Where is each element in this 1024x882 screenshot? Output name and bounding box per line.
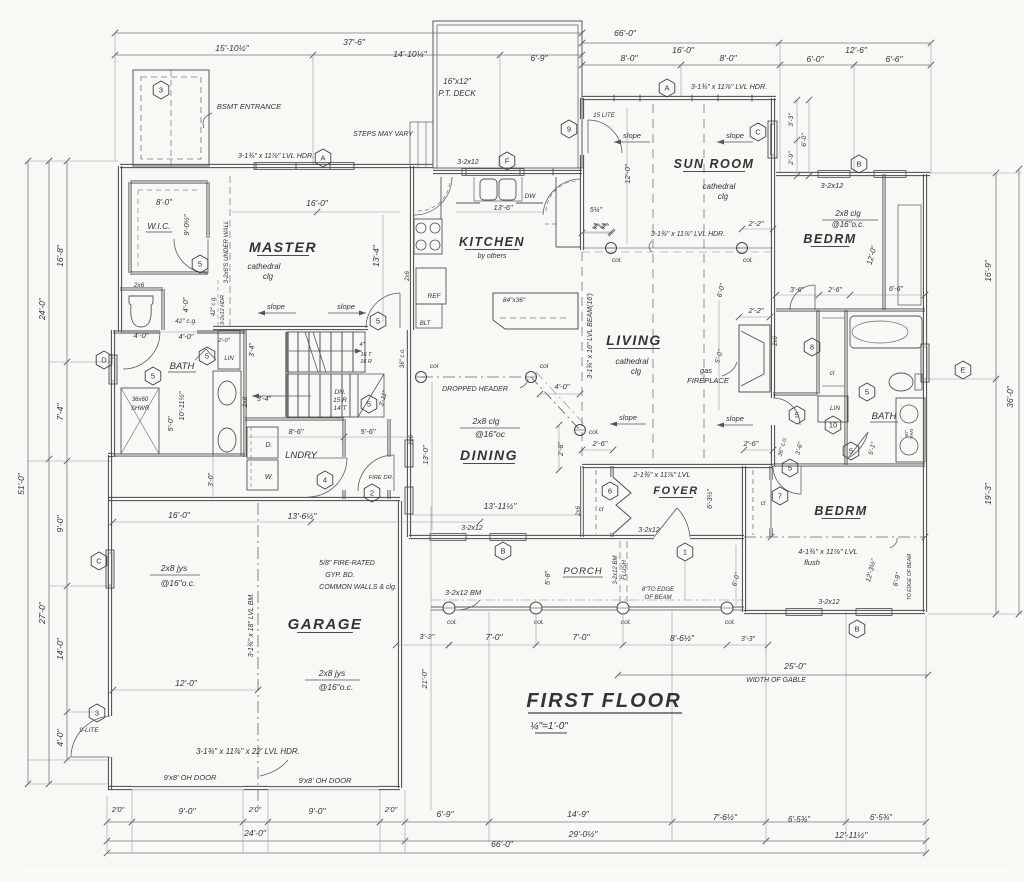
svg-text:2x6: 2x6 xyxy=(133,282,145,289)
svg-text:cathedral: cathedral xyxy=(248,262,281,271)
garage dim 12'-0 xyxy=(113,689,258,691)
foyer header wall xyxy=(582,464,773,467)
svg-text:COMMON WALLS & clg.: COMMON WALLS & clg. xyxy=(319,584,397,591)
svg-text:col: col xyxy=(430,363,439,370)
svg-text:9'x8' OH DOOR: 9'x8' OH DOOR xyxy=(164,773,217,782)
master south wall xyxy=(213,326,368,329)
svg-text:2x8 clg: 2x8 clg xyxy=(472,416,500,426)
garage door leafs xyxy=(132,786,244,788)
svg-text:2'-2": 2'-2" xyxy=(748,219,764,228)
svg-text:2'0": 2'0" xyxy=(111,805,125,814)
kitchen dim 13'-6 xyxy=(456,211,543,213)
svg-text:8'-6": 8'-6" xyxy=(289,427,304,436)
svg-text:LNDRY: LNDRY xyxy=(285,450,318,461)
stove xyxy=(414,219,442,254)
svg-text:6'-5¾": 6'-5¾" xyxy=(870,813,893,822)
svg-text:slope: slope xyxy=(726,414,744,423)
svg-text:6'-6": 6'-6" xyxy=(886,54,904,64)
bedroom3 south wall xyxy=(776,309,925,311)
porch dims xyxy=(535,612,537,645)
svg-text:MASTER: MASTER xyxy=(249,239,317,255)
hex marker 9 sunroom door xyxy=(561,120,577,138)
svg-text:36" c.o.: 36" c.o. xyxy=(400,348,406,368)
svg-text:B: B xyxy=(854,625,859,634)
svg-text:col.: col. xyxy=(447,619,457,626)
wall dining south exterior xyxy=(409,535,582,538)
svg-text:16"x12": 16"x12" xyxy=(443,77,472,86)
sunroom roof beams dashed xyxy=(652,104,654,462)
hex marker 5 bedroom2 door xyxy=(782,459,798,477)
svg-text:TO EDGE OF BEAM: TO EDGE OF BEAM xyxy=(907,553,913,600)
svg-text:36'-0": 36'-0" xyxy=(1005,385,1015,408)
svg-text:16 R: 16 R xyxy=(360,359,372,365)
svg-text:3-2x6'S UNDER WALL: 3-2x6'S UNDER WALL xyxy=(223,220,230,284)
svg-text:5/8" FIRE-RATED: 5/8" FIRE-RATED xyxy=(319,560,375,567)
master se door arc xyxy=(366,293,400,328)
svg-text:21'-0": 21'-0" xyxy=(420,669,429,689)
svg-text:7: 7 xyxy=(778,492,782,501)
svg-text:66'-0": 66'-0" xyxy=(491,839,514,849)
svg-text:66'-0": 66'-0" xyxy=(614,28,637,38)
svg-text:col.: col. xyxy=(743,257,753,264)
hex marker E east window xyxy=(955,361,971,379)
hex marker A top xyxy=(315,149,331,167)
left dimension line 24'-0 / 27'-0 xyxy=(48,161,50,784)
left extension lines xyxy=(28,160,118,162)
svg-text:GYP. BD.: GYP. BD. xyxy=(325,572,354,579)
svg-text:D.: D. xyxy=(266,442,273,449)
svg-text:15'-10½": 15'-10½" xyxy=(215,43,249,53)
foyer closet walls xyxy=(581,466,584,537)
svg-text:B: B xyxy=(856,160,861,169)
svg-text:16'-0": 16'-0" xyxy=(168,510,191,520)
svg-text:5: 5 xyxy=(367,400,371,409)
wall jog bath to garage xyxy=(108,453,113,456)
dims 16'-0 13'-6 line xyxy=(113,521,480,523)
wall garage south xyxy=(108,786,132,789)
svg-text:4'-0": 4'-0" xyxy=(181,297,190,312)
svg-text:SUN ROOM: SUN ROOM xyxy=(674,157,755,171)
svg-text:13'-0": 13'-0" xyxy=(421,445,430,464)
hex marker 4 laundry door xyxy=(317,471,333,489)
svg-text:5: 5 xyxy=(151,372,155,381)
svg-text:3'-4": 3'-4" xyxy=(249,343,256,357)
window dining west xyxy=(405,440,413,467)
svg-text:DW: DW xyxy=(525,193,537,200)
window east wall at bath xyxy=(921,344,929,382)
laundry dims xyxy=(245,436,412,438)
svg-text:2x8 jys: 2x8 jys xyxy=(160,563,188,573)
svg-text:@16"o.c.: @16"o.c. xyxy=(319,682,354,692)
powder toilet xyxy=(129,296,153,327)
svg-text:cl: cl xyxy=(761,500,766,507)
laundry walls xyxy=(245,418,344,420)
right extension lines xyxy=(930,172,1022,174)
svg-text:slope: slope xyxy=(619,413,637,422)
hall door from living xyxy=(773,398,800,425)
svg-text:4'-0": 4'-0" xyxy=(179,332,194,341)
window marks master top wall xyxy=(254,163,354,170)
hex marker C garage window xyxy=(91,552,107,570)
svg-text:col: col xyxy=(540,363,549,370)
svg-text:4'-0": 4'-0" xyxy=(55,729,65,747)
svg-text:8"TO EDGE: 8"TO EDGE xyxy=(642,587,675,593)
right counter run xyxy=(555,177,557,247)
svg-text:DN.: DN. xyxy=(334,389,345,396)
svg-text:24'-0": 24'-0" xyxy=(37,297,47,321)
hex marker 3 stoop xyxy=(153,81,169,99)
svg-text:14 T: 14 T xyxy=(333,405,347,412)
svg-text:9: 9 xyxy=(567,125,571,134)
hex marker 5 toilet nook xyxy=(859,383,875,401)
living west beam dashed xyxy=(581,252,583,462)
hex marker 5 linen xyxy=(199,347,215,365)
svg-text:24'-0": 24'-0" xyxy=(243,828,267,838)
svg-text:W.: W. xyxy=(265,474,273,481)
svg-text:5: 5 xyxy=(849,447,853,456)
svg-text:col.: col. xyxy=(589,429,599,436)
linen closet rear hall xyxy=(818,396,848,422)
svg-text:flush: flush xyxy=(804,558,820,567)
shower 36x60 xyxy=(121,388,159,454)
wall master east / kitchen west xyxy=(410,166,413,330)
hex marker 3 garage door xyxy=(89,704,105,722)
right dimension line 16'-9 / 19'-3 xyxy=(995,173,997,614)
fire door to garage xyxy=(358,455,394,491)
svg-text:3-2x12: 3-2x12 xyxy=(638,527,660,534)
svg-text:1: 1 xyxy=(683,548,687,557)
svg-text:2'-6": 2'-6" xyxy=(827,287,842,294)
bedroom2 south dims xyxy=(727,644,768,646)
rear hall closet wall xyxy=(817,310,819,394)
top extension lines xyxy=(114,33,116,161)
hex marker 5 master hall xyxy=(192,255,208,273)
svg-text:col.: col. xyxy=(725,619,735,626)
svg-text:2'-0": 2'-0" xyxy=(217,338,230,344)
hex marker 5 hall door xyxy=(789,406,805,424)
svg-text:15 LITE: 15 LITE xyxy=(593,112,616,119)
svg-text:3'-3": 3'-3" xyxy=(420,632,435,641)
svg-text:cathedral: cathedral xyxy=(703,182,736,191)
stairs upper flight xyxy=(287,332,365,372)
bottom dimension row 24 / 29 / 12-11 xyxy=(107,840,926,842)
svg-text:slope: slope xyxy=(337,302,355,311)
laundry door arc xyxy=(308,458,347,497)
svg-text:6'-3½": 6'-3½" xyxy=(706,489,714,509)
bath vanity with two sinks xyxy=(213,371,241,456)
svg-text:DINING: DINING xyxy=(460,447,518,463)
dropped header xyxy=(421,376,531,378)
svg-text:2-1¾" x 11⅞" LVL: 2-1¾" x 11⅞" LVL xyxy=(633,470,691,479)
svg-text:cl: cl xyxy=(830,370,835,377)
svg-text:12'-6": 12'-6" xyxy=(845,45,868,55)
svg-text:C: C xyxy=(96,557,102,566)
stairs dn arrow xyxy=(252,395,311,397)
svg-text:6'-9": 6'-9" xyxy=(531,53,549,63)
bedroom2 closet xyxy=(770,466,772,480)
svg-text:GARAGE: GARAGE xyxy=(288,616,363,633)
svg-text:37'-6": 37'-6" xyxy=(343,37,366,47)
svg-text:E: E xyxy=(960,366,965,375)
hex marker 5 bath2 door xyxy=(843,442,859,460)
svg-text:7'-4": 7'-4" xyxy=(55,403,65,421)
svg-text:6'-5¾": 6'-5¾" xyxy=(788,815,811,824)
bedroom3 door arc xyxy=(790,285,815,310)
svg-text:2'-2": 2'-2" xyxy=(748,306,764,315)
svg-text:7'-0": 7'-0" xyxy=(486,632,504,642)
gable width dimension 25'-0 xyxy=(618,674,928,676)
svg-text:3-2x12: 3-2x12 xyxy=(461,525,483,532)
walk-in closet walls xyxy=(130,181,208,183)
svg-text:BATH: BATH xyxy=(170,361,195,372)
svg-text:12'-0": 12'-0" xyxy=(623,164,632,183)
svg-text:3-2x12: 3-2x12 xyxy=(457,159,479,166)
window hall bath west xyxy=(109,355,117,384)
bottom extension lines xyxy=(106,796,108,853)
bath door arc xyxy=(123,332,160,369)
svg-text:WIDTH OF GABLE: WIDTH OF GABLE xyxy=(746,677,806,684)
hex marker D window xyxy=(96,351,112,369)
window marks bedroom2 south xyxy=(786,609,822,616)
svg-text:3'-3": 3'-3" xyxy=(741,636,755,643)
hall bath walls xyxy=(113,331,160,333)
kitchen sink xyxy=(480,179,497,200)
stairs lower flight xyxy=(287,374,358,417)
svg-text:by others: by others xyxy=(478,253,507,260)
svg-text:12'-0": 12'-0" xyxy=(175,678,198,688)
window marks kitchen top xyxy=(462,169,524,176)
svg-text:3-1¾" x 11⅞" LVL HDR.: 3-1¾" x 11⅞" LVL HDR. xyxy=(651,231,725,238)
hex marker C sunroom window xyxy=(750,123,766,141)
svg-text:5: 5 xyxy=(205,352,209,361)
svg-text:7'-6½": 7'-6½" xyxy=(713,812,738,822)
wall bedroom2 south xyxy=(744,610,925,613)
svg-text:9'x8' OH DOOR: 9'x8' OH DOOR xyxy=(299,776,352,785)
wall garage west xyxy=(108,501,111,716)
svg-text:BSMT ENTRANCE: BSMT ENTRANCE xyxy=(217,102,282,111)
svg-text:5'-0": 5'-0" xyxy=(166,416,175,431)
pantry built-in xyxy=(416,304,442,328)
svg-text:36x60: 36x60 xyxy=(132,397,149,403)
porch edge and columns xyxy=(431,606,744,608)
hex marker A sunroom top xyxy=(659,79,675,97)
svg-text:10: 10 xyxy=(829,421,837,430)
svg-text:3'-3": 3'-3" xyxy=(788,113,795,127)
hex marker F kitchen wall xyxy=(499,152,515,170)
hex marker 5 bath door xyxy=(145,367,161,385)
svg-text:3-1¾" x 18" LVL BM.: 3-1¾" x 18" LVL BM. xyxy=(248,593,255,657)
svg-text:4-1¾" x 11⅞" LVL: 4-1¾" x 11⅞" LVL xyxy=(798,547,857,556)
hex marker 8 xyxy=(804,338,820,356)
window marks bedroom3 top xyxy=(818,171,850,178)
hex marker B bedroom2 south xyxy=(849,620,865,638)
svg-text:8'-0": 8'-0" xyxy=(156,198,173,207)
wall sunroom east / living east xyxy=(771,98,774,398)
svg-text:2'-2": 2'-2" xyxy=(592,221,608,230)
svg-text:8'-0": 8'-0" xyxy=(720,53,738,63)
svg-text:¼"=1'-0": ¼"=1'-0" xyxy=(530,720,568,732)
svg-text:3-1¾" x 11⅞" LVL HDR.: 3-1¾" x 11⅞" LVL HDR. xyxy=(691,82,767,91)
svg-text:4'-0": 4'-0" xyxy=(134,331,149,340)
svg-text:8: 8 xyxy=(810,343,814,352)
wall master block top xyxy=(120,164,433,167)
wall bedroom3 top xyxy=(776,172,930,175)
wall bedroom2 west xyxy=(742,466,745,612)
diagonal beam to col xyxy=(531,377,580,430)
bottom dimension row 66'-0 xyxy=(107,852,926,854)
hex marker B dining xyxy=(495,542,511,560)
svg-text:2x6: 2x6 xyxy=(242,396,249,408)
kitchen island xyxy=(493,293,578,329)
svg-text:clg: clg xyxy=(631,367,642,376)
bath2 door xyxy=(848,432,868,458)
svg-text:5: 5 xyxy=(865,388,869,397)
svg-text:3: 3 xyxy=(159,86,163,95)
svg-text:3-1¾" x 16" LVL BEAM(16'): 3-1¾" x 16" LVL BEAM(16') xyxy=(587,293,594,379)
window sunroom east xyxy=(768,121,777,158)
svg-text:B: B xyxy=(500,547,505,556)
wall kitchen-deck top xyxy=(433,170,582,173)
window garage west xyxy=(106,550,114,588)
svg-text:5: 5 xyxy=(788,464,792,473)
hex marker 7 bedroom2 xyxy=(772,487,788,505)
svg-text:16 T: 16 T xyxy=(360,352,372,358)
hex marker 10 linen xyxy=(825,416,841,434)
foyer closet bifold doors xyxy=(613,477,631,534)
linen closet hall xyxy=(218,330,240,369)
svg-text:27'-0": 27'-0" xyxy=(37,601,47,625)
svg-text:2x8 jys: 2x8 jys xyxy=(318,668,346,678)
svg-text:6'-9": 6'-9" xyxy=(437,809,455,819)
svg-text:C: C xyxy=(755,128,761,137)
svg-text:F: F xyxy=(505,157,510,166)
garage center beam xyxy=(257,503,259,810)
svg-text:3-2x12 BM: 3-2x12 BM xyxy=(613,555,619,584)
bedroom3 closet wall xyxy=(883,174,885,310)
svg-text:19'-3": 19'-3" xyxy=(983,482,993,505)
svg-text:16'-0": 16'-0" xyxy=(306,198,329,208)
svg-text:2: 2 xyxy=(370,489,374,498)
svg-text:3'-0": 3'-0" xyxy=(208,473,215,487)
powder room walls xyxy=(120,288,163,290)
wall dining west exterior xyxy=(407,330,410,537)
svg-text:REF: REF xyxy=(428,293,442,300)
hex marker 1 wall ref line xyxy=(684,561,686,600)
svg-text:cathedral: cathedral xyxy=(616,357,649,366)
svg-text:9'-0": 9'-0" xyxy=(309,806,327,816)
svg-text:15 R: 15 R xyxy=(333,397,347,404)
window marks dining south xyxy=(430,534,466,541)
svg-text:5: 5 xyxy=(795,411,799,420)
svg-text:cl: cl xyxy=(599,506,604,513)
svg-text:LIN: LIN xyxy=(224,356,234,362)
svg-text:BEDRM: BEDRM xyxy=(803,232,856,246)
svg-text:7'-0": 7'-0" xyxy=(573,632,591,642)
svg-text:A: A xyxy=(664,84,669,93)
svg-text:29'-0½": 29'-0½" xyxy=(568,829,599,839)
front door arc xyxy=(654,508,677,537)
basement entrance stoop xyxy=(133,70,209,166)
hex marker B bedroom3 wall xyxy=(851,155,867,173)
svg-text:2x6: 2x6 xyxy=(405,271,411,282)
right dimension line 36'-0 xyxy=(1018,169,1020,614)
kitchen counters xyxy=(440,177,442,219)
wic door arc xyxy=(174,239,208,273)
sunroom header and columns xyxy=(582,247,773,249)
PT deck outline xyxy=(433,21,582,168)
svg-text:slope: slope xyxy=(623,131,641,140)
svg-text:3-2x12: 3-2x12 xyxy=(818,599,840,606)
hex marker 1 front door xyxy=(677,543,693,561)
svg-text:6'-0": 6'-0" xyxy=(801,133,808,147)
svg-text:slope: slope xyxy=(267,302,285,311)
bedroom3 dim line xyxy=(776,294,925,296)
svg-text:16'-8": 16'-8" xyxy=(55,244,65,267)
svg-text:BLT: BLT xyxy=(420,321,432,327)
svg-text:3-1¾" x 11⅞" LVL HDR.: 3-1¾" x 11⅞" LVL HDR. xyxy=(238,151,314,160)
svg-text:3-2x12 HDR: 3-2x12 HDR xyxy=(220,295,226,325)
svg-text:2x6: 2x6 xyxy=(576,506,582,517)
garage east dims xyxy=(396,644,449,646)
svg-text:3-2x12 BM: 3-2x12 BM xyxy=(445,588,482,597)
svg-text:12'-11½": 12'-11½" xyxy=(835,830,869,840)
svg-text:4'-0": 4'-0" xyxy=(555,382,570,391)
svg-text:3: 3 xyxy=(95,709,99,718)
svg-text:STEPS MAY VARY: STEPS MAY VARY xyxy=(353,131,414,138)
top dimension line 37'-6 xyxy=(115,32,582,34)
svg-text:clg: clg xyxy=(263,272,274,281)
svg-text:2'-9": 2'-9" xyxy=(788,151,795,166)
stairs winder xyxy=(358,374,384,417)
svg-text:14'-10¼": 14'-10¼" xyxy=(393,49,427,59)
wall garage east xyxy=(398,501,401,788)
svg-text:5'-6": 5'-6" xyxy=(361,427,376,436)
svg-text:DROPPED HEADER: DROPPED HEADER xyxy=(442,386,508,393)
hex marker 5 master se door xyxy=(370,312,386,330)
svg-text:col.: col. xyxy=(612,257,622,264)
deck steps xyxy=(410,121,433,123)
svg-text:8'-0": 8'-0" xyxy=(621,53,639,63)
wall kitchen east xyxy=(580,174,583,250)
svg-text:2x8 clg: 2x8 clg xyxy=(834,209,861,218)
left dimension line 51'-0 xyxy=(27,161,29,784)
svg-text:5: 5 xyxy=(198,260,202,269)
svg-text:W.I.C.: W.I.C. xyxy=(147,221,170,231)
svg-text:@16"o.c.: @16"o.c. xyxy=(161,578,196,588)
svg-text:BEDRM: BEDRM xyxy=(814,504,867,518)
hex marker 5 stairs xyxy=(361,395,377,413)
bath2 tub xyxy=(850,316,922,348)
svg-text:84"x36": 84"x36" xyxy=(503,297,526,304)
beam note 3-2x6s under wall xyxy=(229,176,231,326)
svg-text:clg: clg xyxy=(718,192,729,201)
svg-text:2'0": 2'0" xyxy=(248,805,262,814)
svg-text:5: 5 xyxy=(376,317,380,326)
wall sunroom west xyxy=(580,98,583,119)
svg-text:4: 4 xyxy=(323,476,327,485)
svg-text:13'-4": 13'-4" xyxy=(371,244,381,267)
svg-text:13'-6½": 13'-6½" xyxy=(288,511,318,521)
svg-text:2x6: 2x6 xyxy=(409,435,415,446)
bedroom2 flush beam xyxy=(744,536,925,538)
svg-text:42" c.g.: 42" c.g. xyxy=(211,296,217,316)
svg-text:SHWR: SHWR xyxy=(131,406,150,412)
svg-text:6'-6": 6'-6" xyxy=(889,286,903,293)
window marks sunroom top xyxy=(613,95,615,102)
master dim 13'-4 xyxy=(382,215,384,322)
svg-text:14'-9": 14'-9" xyxy=(567,809,590,819)
svg-text:9'-0": 9'-0" xyxy=(55,515,65,533)
